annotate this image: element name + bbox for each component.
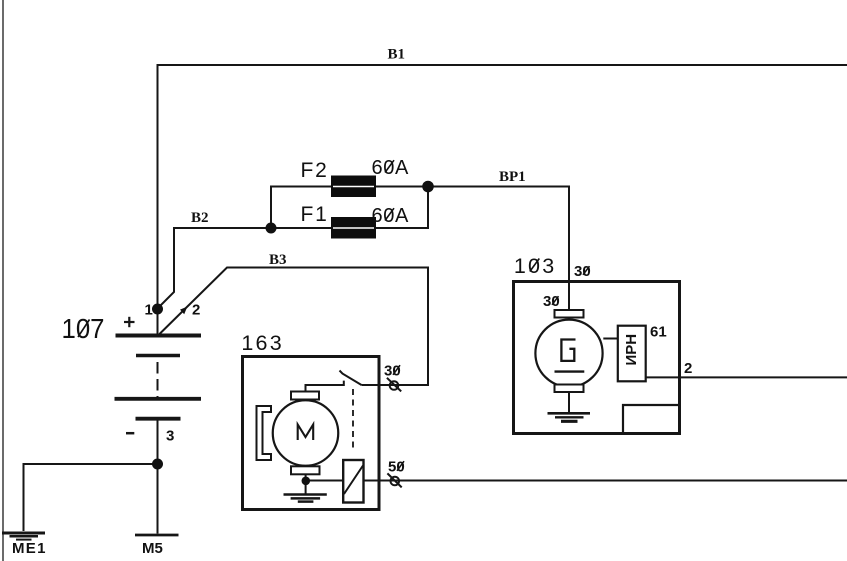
svg-text:30: 30	[574, 263, 591, 280]
svg-text:60A: 60A	[372, 205, 409, 227]
svg-text:ME1: ME1	[12, 540, 47, 557]
svg-text:B3: B3	[269, 252, 287, 268]
svg-text:2: 2	[684, 360, 692, 377]
svg-text:50: 50	[388, 459, 405, 476]
svg-text:1: 1	[145, 302, 153, 319]
svg-text:163: 163	[241, 331, 283, 355]
svg-text:30: 30	[543, 293, 560, 310]
svg-text:BP1: BP1	[499, 169, 526, 185]
svg-text:60A: 60A	[372, 157, 409, 179]
svg-text:B1: B1	[388, 47, 406, 63]
svg-text:2: 2	[192, 302, 200, 319]
svg-text:F1: F1	[301, 203, 329, 226]
svg-text:ИРН: ИРН	[623, 334, 640, 366]
svg-text:61: 61	[650, 324, 667, 341]
svg-text:F2: F2	[301, 159, 329, 182]
svg-text:3: 3	[166, 427, 174, 444]
svg-text:B2: B2	[191, 210, 209, 226]
svg-text:30: 30	[384, 363, 401, 380]
svg-text:M5: M5	[142, 540, 163, 557]
svg-text:103: 103	[514, 254, 556, 278]
